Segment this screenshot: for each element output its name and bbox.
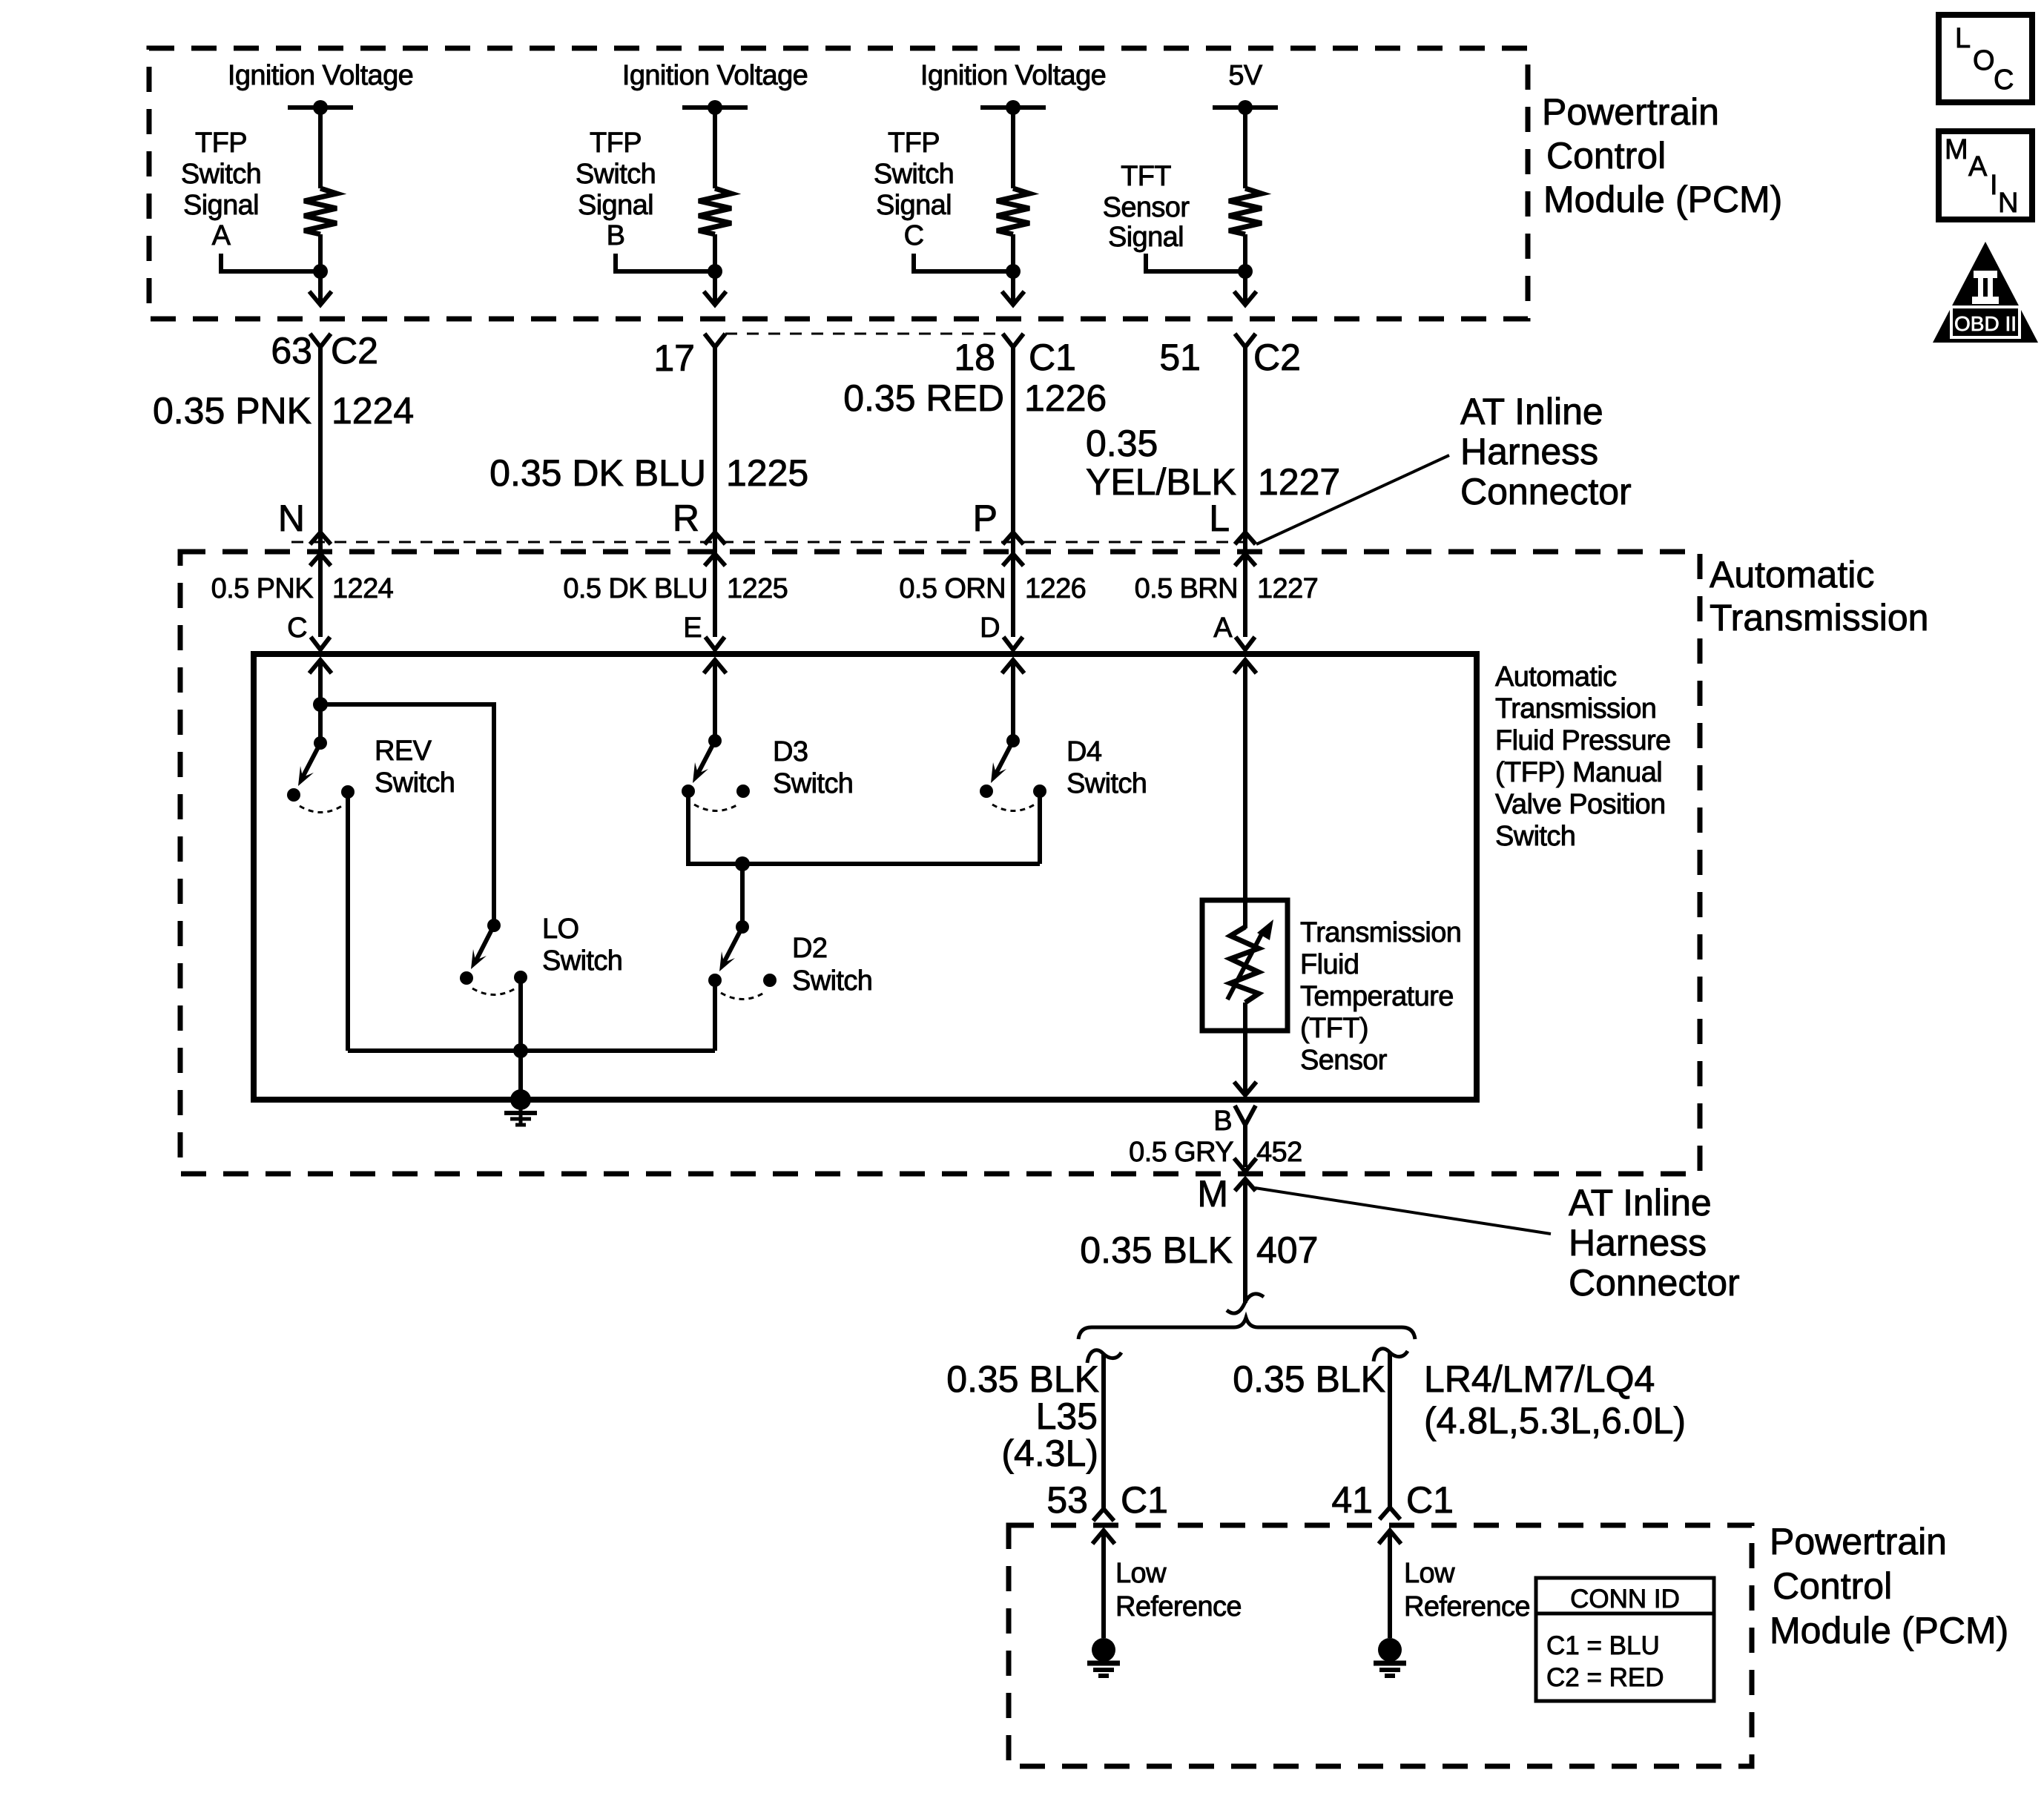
arrow: low reference pin 41 [1379, 1530, 1401, 1544]
svg-text:0.5 BRN: 0.5 BRN [1135, 573, 1238, 604]
label: 0.35 BLK L35 (4.3L) [946, 1358, 1099, 1474]
label: D2 Switch [792, 933, 872, 997]
junction [313, 264, 328, 279]
svg-text:Reference: Reference [1115, 1591, 1242, 1622]
TFP manual valve position switch box [254, 654, 1477, 1100]
svg-text:OBD II: OBD II [1954, 312, 2017, 335]
svg-text:CONN ID: CONN ID [1570, 1585, 1680, 1614]
svg-text:Sensor: Sensor [1300, 1045, 1388, 1076]
label: Automatic Transmission Fluid Pressure (TFP) Manual Valve Position Switch [1495, 661, 1671, 852]
svg-text:N: N [278, 498, 305, 539]
thermistor: TFT sensor element [1227, 919, 1273, 1003]
switch D4 throw arc [992, 805, 1035, 811]
svg-text:I: I [1990, 170, 1997, 201]
arrow: to inline connector M [1234, 1158, 1256, 1172]
svg-text:1224: 1224 [332, 390, 414, 432]
svg-text:Switch: Switch [874, 159, 954, 190]
wire: D2 contact to common bus [713, 980, 717, 1051]
svg-text:Switch: Switch [792, 965, 872, 997]
switch LO (pivot) [487, 919, 501, 932]
svg-text:Switch: Switch [375, 767, 455, 799]
wire: 0.35 BLK to PCM 41 (LR4/LM7/LQ4) [1374, 1349, 1408, 1361]
svg-text:Harness: Harness [1569, 1222, 1707, 1264]
svg-text:C: C [287, 612, 307, 644]
svg-text:AT Inline: AT Inline [1460, 391, 1603, 432]
svg-text:C1: C1 [1121, 1479, 1168, 1521]
wire: signal tap [616, 254, 715, 271]
brace: splice split [1078, 1318, 1415, 1339]
connector pin C of TFP switch [287, 612, 330, 650]
svg-text:C: C [904, 220, 924, 251]
wire: supply to resistor R4 [1243, 108, 1247, 188]
label: 0.35 BLK 407 [1080, 1229, 1318, 1271]
svg-text:(TFT): (TFT) [1300, 1013, 1368, 1044]
svg-text:53: 53 [1046, 1479, 1088, 1521]
wire: signal tap [1146, 254, 1245, 271]
svg-text:Signal: Signal [183, 190, 259, 221]
svg-text:Switch: Switch [181, 159, 261, 190]
svg-text:0.5 ORN: 0.5 ORN [899, 573, 1006, 604]
svg-text:M: M [1197, 1173, 1228, 1215]
connector pin 53 C1 [1046, 1479, 1168, 1521]
switch REV contacts [287, 788, 300, 802]
svg-text:B: B [607, 220, 625, 251]
svg-text:Ignition Voltage: Ignition Voltage [920, 60, 1106, 91]
connector pin 41 C1 [1331, 1479, 1454, 1521]
switch D3 contacts [682, 785, 695, 798]
svg-text:D4: D4 [1066, 736, 1102, 767]
svg-text:Switch: Switch [1495, 821, 1575, 852]
svg-text:TFT: TFT [1121, 161, 1171, 192]
node: 5V supply (branch 51) [1213, 60, 1278, 115]
svg-text:TFP: TFP [590, 128, 642, 159]
ground: TFP switch common [510, 1089, 531, 1110]
svg-text:Automatic: Automatic [1495, 661, 1617, 693]
svg-text:C1: C1 [1406, 1479, 1454, 1521]
switch D4 arm [995, 741, 1013, 775]
connector pin E of TFP switch [683, 612, 725, 650]
ground: PCM low reference (left) [1092, 1638, 1115, 1662]
label: Low Reference (left) [1115, 1558, 1242, 1622]
svg-text:0.35: 0.35 [1086, 423, 1158, 464]
switch D3 (pivot) [708, 734, 722, 747]
arrow: signal to pin [1234, 291, 1256, 305]
svg-text:E: E [683, 612, 702, 644]
switch D2 throw arc [721, 993, 764, 1000]
svg-text:Low: Low [1115, 1558, 1167, 1589]
svg-text:C2: C2 [1253, 337, 1301, 378]
label: D4 Switch [1066, 736, 1147, 799]
arrow: pin D into switch [1002, 660, 1024, 673]
svg-text:L35: L35 [1036, 1396, 1098, 1437]
svg-text:1226: 1226 [1025, 573, 1086, 604]
AT inline harness connector dashed outline (top edge) [725, 333, 1003, 335]
svg-text:452: 452 [1256, 1137, 1302, 1168]
junction: branch to LO switch feed [313, 697, 328, 712]
label: REV Switch [375, 736, 455, 799]
Powertrain Control Module (PCM) box, bottom [1009, 1525, 1752, 1766]
svg-text:A: A [1968, 151, 1988, 182]
switch D2 (pivot) [736, 920, 749, 934]
label: AT Inline Harness Connector (upper) [1460, 391, 1632, 512]
switch LO arm [475, 925, 494, 962]
svg-text:LO: LO [542, 914, 579, 945]
node: Ignition Voltage supply (branch 17) [622, 60, 808, 115]
connector L: AT inline harness [1209, 498, 1256, 566]
TFT sensor box [1202, 900, 1288, 1031]
svg-text:Sensor: Sensor [1103, 192, 1190, 223]
label: D3 Switch [773, 736, 853, 799]
label: Powertrain Control Module (PCM), top [1542, 91, 1782, 220]
svg-text:Ignition Voltage: Ignition Voltage [622, 60, 808, 91]
arrow: to pin B [1234, 1082, 1256, 1095]
wire: supply to resistor R3 [1011, 108, 1015, 188]
svg-text:C1 = BLU: C1 = BLU [1546, 1631, 1660, 1660]
label: wire color/circuit 1226 [843, 377, 1107, 419]
svg-text:R: R [673, 498, 699, 539]
label: TFP Switch Signal C [874, 128, 954, 251]
table: CONN ID legend [1536, 1578, 1714, 1701]
svg-text:N: N [1998, 188, 2018, 219]
junction: D2 feed [735, 856, 750, 871]
svg-text:63: 63 [271, 330, 312, 371]
wire: LO contact to common [518, 977, 523, 1100]
wire: TFT sensor return [1243, 1003, 1247, 1095]
svg-text:Powertrain: Powertrain [1770, 1521, 1947, 1562]
wire: common bus [348, 1048, 715, 1053]
node: Ignition Voltage supply (branch 18) [920, 60, 1106, 115]
switch LO contacts [460, 971, 473, 985]
svg-text:Valve Position: Valve Position [1495, 789, 1666, 820]
svg-text:D: D [980, 612, 1000, 644]
svg-text:Fluid: Fluid [1300, 949, 1359, 980]
svg-text:Low: Low [1404, 1558, 1455, 1589]
svg-text:0.5 DK BLU: 0.5 DK BLU [563, 573, 708, 604]
label: wire 0.5 1224 inside transmission [211, 573, 394, 604]
arrow: pin C into switch [309, 660, 332, 673]
svg-text:51: 51 [1159, 337, 1201, 378]
svg-text:1224: 1224 [332, 573, 394, 604]
wire: signal tap [914, 254, 1013, 271]
connector pin 63 C2 [271, 330, 378, 371]
label: Low Reference (right) [1404, 1558, 1530, 1622]
svg-text:A: A [1213, 612, 1233, 644]
svg-text:18: 18 [954, 337, 995, 378]
svg-text:Connector: Connector [1460, 471, 1632, 512]
svg-text:Module (PCM): Module (PCM) [1770, 1610, 2008, 1651]
svg-text:TFP: TFP [888, 128, 940, 159]
label: AT Inline Harness Connector (lower) [1569, 1182, 1740, 1304]
arrow: signal to pin [704, 291, 726, 305]
svg-text:407: 407 [1256, 1229, 1318, 1271]
svg-text:Switch: Switch [1066, 768, 1147, 799]
wire: resistor R1 to output pin [318, 234, 323, 303]
svg-text:0.35 BLK: 0.35 BLK [946, 1358, 1099, 1400]
symbol: MAIN box [1939, 131, 2032, 219]
switch REV (pivot) [314, 736, 327, 750]
resistor R2 (PCM internal pull-up) [699, 188, 731, 234]
AT inline harness connector dashed outline (bottom edge) [291, 541, 1246, 544]
wire: resistor R3 to output pin [1011, 234, 1015, 303]
switch D4 (pivot) [1006, 734, 1020, 747]
svg-text:41: 41 [1331, 1479, 1373, 1521]
wire: resistor R4 to output pin [1243, 234, 1247, 303]
wire: feed to D2 switch [740, 864, 745, 927]
label: LO Switch [542, 914, 622, 977]
svg-text:0.35 RED: 0.35 RED [843, 377, 1004, 419]
svg-text:Switch: Switch [773, 768, 853, 799]
svg-text:Transmission: Transmission [1300, 917, 1461, 948]
svg-text:0.5 PNK: 0.5 PNK [211, 573, 314, 604]
svg-text:Switch: Switch [576, 159, 656, 190]
resistor R1 (PCM internal pull-up) [304, 188, 337, 234]
svg-text:B: B [1213, 1106, 1232, 1137]
wire: circuit 1226 (0.35 RED) PCM to inline connector [1011, 347, 1015, 637]
Powertrain Control Module (PCM) box, top [149, 48, 1528, 319]
svg-text:0.35 BLK: 0.35 BLK [1080, 1229, 1233, 1271]
connector pin 18 C1 [954, 334, 1076, 378]
svg-text:Control: Control [1773, 1565, 1892, 1607]
svg-text:1227: 1227 [1257, 573, 1318, 604]
svg-text:(TFP) Manual: (TFP) Manual [1495, 757, 1662, 788]
switch REV throw arc [300, 806, 342, 813]
svg-text:(4.8L,5.3L,6.0L): (4.8L,5.3L,6.0L) [1424, 1400, 1686, 1441]
svg-text:D2: D2 [792, 933, 827, 964]
wire: circuit 1224 (0.35 PNK) PCM to inline connector [318, 347, 323, 637]
svg-text:Powertrain: Powertrain [1542, 91, 1719, 133]
switch D3 throw arc [694, 805, 738, 811]
svg-text:C1: C1 [1029, 337, 1076, 378]
wire: circuit 1225 (0.35 DK BLU) PCM to inline connector [713, 347, 717, 637]
svg-text:Harness: Harness [1460, 431, 1598, 472]
label: wire 0.5 1225 inside transmission [563, 573, 788, 604]
connector pin B [1213, 1106, 1256, 1137]
svg-text:0.35 DK BLU: 0.35 DK BLU [489, 452, 706, 494]
label: TFP Switch Signal B [576, 128, 656, 251]
pointer line to AT Inline Harness Connector (upper) [1256, 455, 1449, 544]
svg-text:Signal: Signal [578, 190, 653, 221]
connector pin 51 C2 [1159, 334, 1301, 378]
svg-text:C: C [1994, 65, 2014, 96]
svg-text:1225: 1225 [727, 573, 788, 604]
wire: circuit 1227 (0.35) PCM to inline connector [1243, 347, 1247, 637]
symbol: LOC box [1939, 15, 2032, 102]
svg-text:AT Inline: AT Inline [1569, 1182, 1712, 1223]
switch LO throw arc [472, 988, 515, 995]
wire: signal tap [221, 254, 320, 271]
svg-text:Fluid Pressure: Fluid Pressure [1495, 725, 1671, 756]
label: Transmission Fluid Temperature (TFT) Sensor [1300, 917, 1461, 1076]
arrow: pin E into switch [704, 660, 726, 673]
svg-text:17: 17 [653, 337, 695, 379]
break: wire continuation symbol [1227, 1294, 1264, 1313]
Automatic Transmission box [180, 552, 1700, 1174]
svg-text:(4.3L): (4.3L) [1001, 1433, 1098, 1474]
wire: supply to resistor R1 [318, 108, 323, 188]
wire: feed to LO switch [320, 704, 494, 925]
svg-text:Ignition Voltage: Ignition Voltage [228, 60, 413, 91]
svg-text:D3: D3 [773, 736, 808, 767]
junction [1006, 264, 1021, 279]
label: wire color/circuit 1227 [1086, 423, 1340, 503]
svg-text:TFP: TFP [195, 128, 247, 159]
label: 0.35 BLK LR4/LM7/LQ4 (4.8L,5.3L,6.0L) [1233, 1358, 1686, 1441]
symbol: OBD II triangle [1933, 242, 2038, 343]
svg-text:Module (PCM): Module (PCM) [1543, 179, 1782, 220]
wire: 0.5 GRY 452 [1243, 1125, 1247, 1167]
switch D4 contacts [980, 785, 993, 798]
connector pin 17 [653, 334, 725, 379]
svg-text:1225: 1225 [726, 452, 808, 494]
svg-text:C2: C2 [331, 330, 378, 371]
svg-text:0.35 PNK: 0.35 PNK [153, 390, 311, 432]
ground: PCM low reference (right) [1378, 1638, 1402, 1662]
wire: resistor R2 to output pin [713, 234, 717, 303]
switch REV arm [302, 743, 320, 779]
label: wire color/circuit 1225 [489, 452, 808, 494]
svg-text:Temperature: Temperature [1300, 981, 1454, 1012]
svg-text:1226: 1226 [1024, 377, 1107, 419]
svg-text:0.35 BLK: 0.35 BLK [1233, 1358, 1385, 1400]
wire: 0.35 BLK 407 [1243, 1179, 1247, 1303]
resistor R3 (PCM internal pull-up) [997, 188, 1029, 234]
svg-text:Signal: Signal [876, 190, 952, 221]
wire: supply to resistor R2 [713, 108, 717, 188]
label: TFP Switch Signal A [181, 128, 261, 251]
connector M: AT inline harness [1197, 1173, 1256, 1215]
connector N: AT inline harness [278, 498, 331, 566]
svg-text:YEL/BLK: YEL/BLK [1086, 461, 1236, 503]
svg-text:L: L [1955, 23, 1971, 54]
label: TFT Sensor Signal [1103, 161, 1190, 253]
svg-text:M: M [1945, 134, 1968, 165]
svg-text:O: O [1973, 45, 1994, 76]
svg-text:Reference: Reference [1404, 1591, 1530, 1622]
svg-text:Switch: Switch [542, 945, 622, 977]
label: Powertrain Control Module (PCM), bottom [1770, 1521, 2008, 1651]
switch D3 arm [697, 741, 715, 775]
svg-text:Signal: Signal [1108, 222, 1184, 253]
arrow: signal to pin [309, 291, 332, 305]
svg-text:Automatic: Automatic [1710, 554, 1874, 595]
svg-text:0.5 GRY: 0.5 GRY [1129, 1137, 1233, 1168]
label: Automatic Transmission [1710, 554, 1928, 638]
svg-text:Control: Control [1546, 135, 1666, 176]
junction: common bus [513, 1043, 528, 1058]
wire: D4 contact to D3/D4 bus [1038, 791, 1042, 864]
node: Ignition Voltage supply (branch 63) [228, 60, 413, 115]
svg-text:5V: 5V [1228, 60, 1263, 91]
svg-text:A: A [212, 220, 231, 251]
wire: 0.35 BLK to PCM 53 (L35 4.3L) [1087, 1350, 1121, 1363]
label: 0.5 GRY 452 [1129, 1137, 1302, 1168]
connector P: AT inline harness [973, 498, 1023, 566]
pointer line to AT Inline Harness Connector (lower) [1255, 1188, 1551, 1234]
connector pin D of TFP switch [980, 612, 1023, 650]
junction [708, 264, 722, 279]
svg-text:C2 = RED: C2 = RED [1546, 1663, 1664, 1692]
arrow: pin A into switch assembly [1234, 660, 1256, 673]
svg-text:P: P [973, 498, 998, 539]
svg-text:Connector: Connector [1569, 1262, 1740, 1304]
connector pin A of TFP switch [1213, 612, 1255, 650]
arrow: low reference pin 53 [1092, 1530, 1115, 1544]
label: wire 0.5 1227 inside transmission [1135, 573, 1319, 604]
wire: D3 contact to D3/D4 bus [688, 791, 1040, 864]
svg-text:LR4/LM7/LQ4: LR4/LM7/LQ4 [1424, 1358, 1655, 1400]
arrow: signal to pin [1002, 291, 1024, 305]
junction [1238, 264, 1253, 279]
label: wire 0.5 1226 inside transmission [899, 573, 1086, 604]
svg-text:L: L [1209, 498, 1230, 539]
svg-text:Transmission: Transmission [1710, 597, 1928, 638]
connector R: AT inline harness [673, 498, 725, 566]
svg-text:REV: REV [375, 736, 432, 767]
svg-text:1227: 1227 [1258, 461, 1340, 503]
switch D2 arm [723, 927, 742, 964]
switch D2 contacts [708, 974, 722, 987]
label: wire color/circuit 1224 [153, 390, 414, 432]
wire: REV contact down [346, 792, 350, 1051]
svg-text:Transmission: Transmission [1495, 693, 1656, 724]
resistor R4 (PCM internal pull-up) [1229, 188, 1262, 234]
